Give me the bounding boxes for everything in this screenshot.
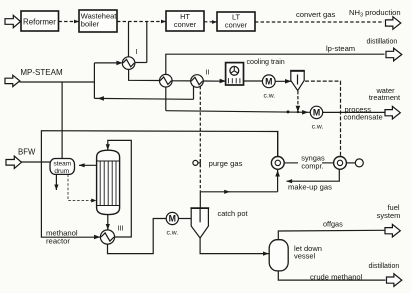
- svg-text:M: M: [169, 214, 176, 224]
- svg-text:MP-STEAM: MP-STEAM: [20, 68, 63, 77]
- svg-text:BFW: BFW: [18, 148, 36, 157]
- svg-text:cooling train: cooling train: [247, 58, 285, 66]
- svg-text:distillation: distillation: [367, 39, 398, 46]
- svg-text:c.w.: c.w.: [166, 230, 178, 237]
- svg-text:conver: conver: [225, 21, 248, 30]
- svg-text:M: M: [265, 76, 272, 86]
- svg-text:NH3 production: NH3 production: [349, 8, 401, 19]
- svg-text:treatment: treatment: [369, 93, 400, 102]
- svg-text:Reformer: Reformer: [23, 17, 56, 26]
- svg-text:make-up gas: make-up gas: [288, 183, 332, 192]
- svg-text:I: I: [136, 47, 138, 56]
- svg-text:II: II: [206, 68, 210, 77]
- svg-text:vessel: vessel: [294, 251, 316, 260]
- svg-text:compr.: compr.: [301, 162, 323, 171]
- svg-text:steam: steam: [53, 161, 71, 168]
- svg-text:system: system: [377, 211, 401, 220]
- svg-text:crude methanol: crude methanol: [310, 273, 363, 282]
- svg-text:distillation: distillation: [369, 263, 400, 270]
- svg-text:purge gas: purge gas: [209, 159, 243, 168]
- svg-text:conver: conver: [174, 20, 197, 29]
- svg-text:boiler: boiler: [81, 19, 100, 28]
- svg-text:convert gas: convert gas: [296, 10, 335, 19]
- svg-text:M: M: [313, 107, 320, 117]
- svg-text:reactor: reactor: [46, 237, 70, 246]
- svg-text:III: III: [118, 224, 124, 233]
- svg-text:c.w.: c.w.: [263, 93, 275, 100]
- svg-text:lp-steam: lp-steam: [326, 44, 355, 53]
- svg-text:catch pot: catch pot: [218, 209, 248, 218]
- svg-text:drum: drum: [54, 168, 69, 175]
- svg-text:condensate: condensate: [344, 113, 383, 122]
- svg-text:offgas: offgas: [323, 220, 343, 229]
- svg-text:c.w.: c.w.: [312, 124, 324, 131]
